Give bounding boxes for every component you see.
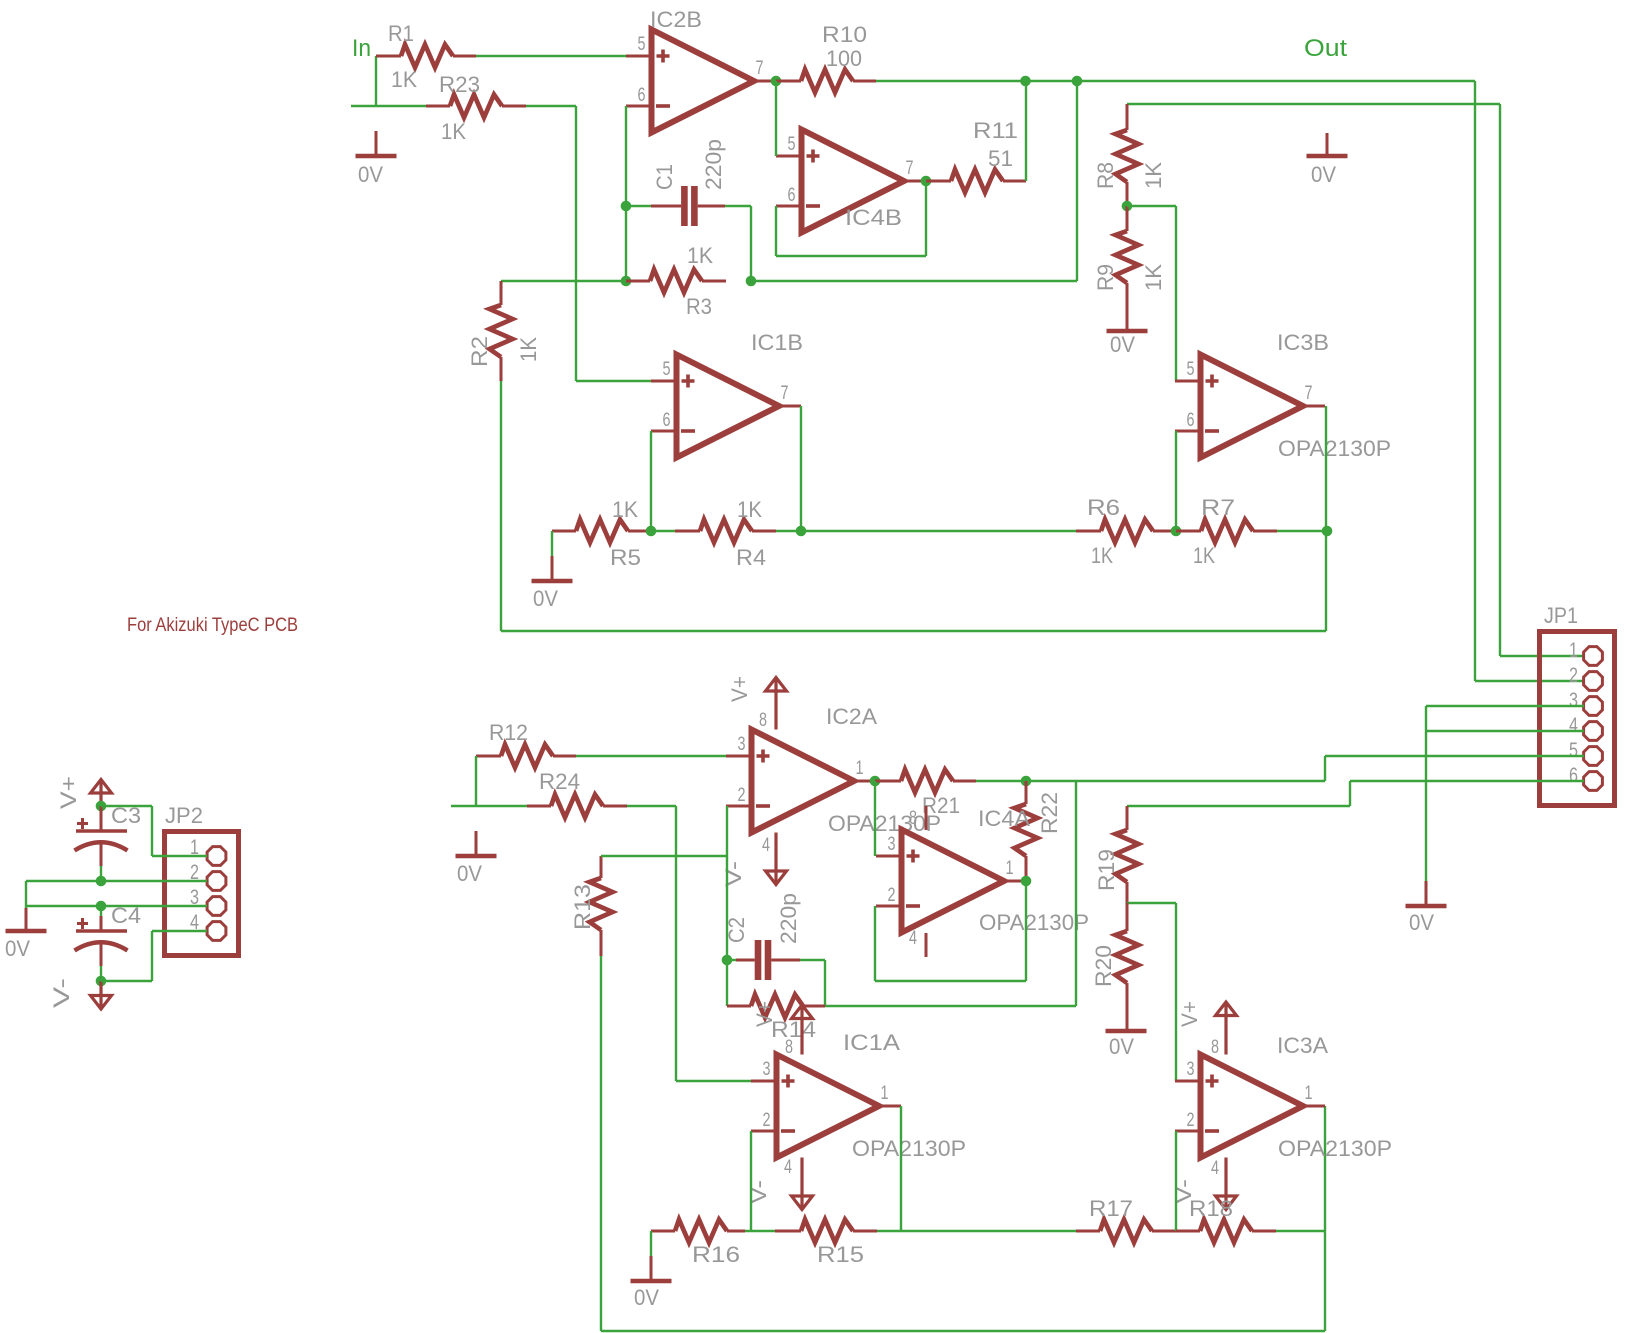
svg-text:4: 4 xyxy=(909,928,917,949)
connector JP2 pins xyxy=(190,836,226,940)
svg-text:3: 3 xyxy=(738,734,746,755)
svg-text:0V: 0V xyxy=(5,936,30,961)
connector JP1 box xyxy=(1540,603,1615,806)
svg-text:IC1A: IC1A xyxy=(843,1030,900,1055)
wire JP1 pin1 horizontal xyxy=(1500,655,1584,657)
wire JP1 pin4 horizontal xyxy=(1426,730,1584,732)
svg-text:2: 2 xyxy=(738,785,746,806)
wire C3 bottom xyxy=(100,866,102,881)
svg-text:8: 8 xyxy=(909,808,917,829)
wire JP2 pin1 c xyxy=(152,855,207,857)
svg-text:R14: R14 xyxy=(771,1017,816,1042)
wire R24 right xyxy=(627,805,676,807)
wire R13 top row xyxy=(601,855,727,857)
wire bottom rail xyxy=(601,1330,1325,1332)
svg-text:3: 3 xyxy=(1569,689,1578,712)
ground 0V below Out xyxy=(1307,133,1348,187)
node Out label xyxy=(1304,35,1347,62)
op-amp IC3A xyxy=(1175,1033,1392,1179)
ground 0V below R5 xyxy=(532,531,573,611)
svg-text:1K: 1K xyxy=(391,67,417,92)
wire R8 top row xyxy=(1127,103,1500,105)
svg-text:6: 6 xyxy=(663,410,671,431)
wire C2 right down xyxy=(824,960,826,1006)
wire JP1 pin3 vertical to 0V xyxy=(1425,706,1427,881)
op-amp IC1A xyxy=(751,1030,966,1178)
capacitor C4 xyxy=(75,903,142,966)
svg-text:1K: 1K xyxy=(687,243,713,268)
svg-text:3: 3 xyxy=(1187,1059,1195,1080)
wire R23 row left xyxy=(351,105,426,107)
wire IC3A out down xyxy=(1324,1106,1326,1331)
power V+ above IC2A xyxy=(727,676,787,730)
power V+ above IC1A xyxy=(752,1001,813,1055)
svg-text:8: 8 xyxy=(785,1037,793,1058)
power V- below IC2A xyxy=(721,833,787,888)
resistor R21 xyxy=(875,770,976,819)
wire R3 row up to Out xyxy=(1076,81,1078,281)
svg-text:OPA2130P: OPA2130P xyxy=(979,910,1089,935)
wire Out row xyxy=(876,80,1475,82)
wire R19 R20 junction right xyxy=(1127,902,1176,904)
svg-text:0V: 0V xyxy=(358,162,383,187)
resistor R7 xyxy=(1176,495,1277,568)
wire R24 down to IC1A xyxy=(675,806,677,1081)
wire IC4B pin5 vertical xyxy=(775,81,777,156)
ground 0V below JP1 xyxy=(1406,881,1447,935)
svg-text:0V: 0V xyxy=(533,586,558,611)
wire IC3A pin2 down xyxy=(1175,1131,1177,1231)
svg-text:1K: 1K xyxy=(1141,162,1166,189)
wire top loop right up xyxy=(1325,531,1327,631)
node dot IC4B out xyxy=(921,176,932,187)
svg-text:V+: V+ xyxy=(56,776,81,809)
svg-text:R18: R18 xyxy=(1189,1196,1233,1221)
wire top loop bottom xyxy=(501,630,1326,632)
node dot Out loop xyxy=(1072,76,1083,87)
svg-text:4: 4 xyxy=(762,835,770,856)
svg-text:IC4A: IC4A xyxy=(978,806,1030,831)
svg-text:R16: R16 xyxy=(692,1242,740,1267)
svg-text:Out: Out xyxy=(1304,35,1347,62)
svg-text:JP2: JP2 xyxy=(165,803,203,828)
resistor R9 xyxy=(1093,206,1166,331)
ground 0V near R24 xyxy=(456,831,497,886)
wire IC4A feedback bottom xyxy=(875,980,1026,982)
svg-text:5: 5 xyxy=(1569,739,1578,762)
node dot R3 right xyxy=(746,276,757,287)
capacitor C3 xyxy=(75,803,142,866)
wire R11 up to Out xyxy=(1025,81,1027,181)
wire R3 left to R2 xyxy=(501,280,626,282)
svg-text:100: 100 xyxy=(826,46,862,71)
svg-text:V-: V- xyxy=(721,861,746,887)
resistor R19 xyxy=(1094,806,1139,903)
svg-text:V-: V- xyxy=(746,1180,771,1204)
wire IC4A feedback down xyxy=(874,906,876,981)
pin 4 stub IC4A xyxy=(925,933,928,957)
svg-text:1K: 1K xyxy=(441,119,466,144)
resistor R20 xyxy=(1091,903,1139,1031)
connector JP2 box xyxy=(165,803,239,956)
svg-text:0V: 0V xyxy=(1311,162,1336,187)
svg-text:5: 5 xyxy=(788,134,796,155)
svg-text:R8: R8 xyxy=(1093,162,1118,189)
resistor R2 xyxy=(467,281,541,381)
node dot R21 R22 xyxy=(1021,776,1032,787)
resistor R6 xyxy=(1076,495,1176,568)
svg-text:2: 2 xyxy=(763,1110,771,1131)
svg-text:7: 7 xyxy=(781,383,789,404)
svg-text:R6: R6 xyxy=(1087,495,1120,520)
connector JP1 pins xyxy=(1569,639,1602,790)
wire R13 down xyxy=(600,956,602,1331)
svg-text:1: 1 xyxy=(856,758,864,779)
ground 0V near In xyxy=(356,131,397,187)
wire IC1A out down xyxy=(900,1106,902,1231)
svg-text:2: 2 xyxy=(888,885,896,906)
wire R12 vertical xyxy=(475,756,477,806)
node dot C2 left xyxy=(722,955,733,966)
wire R21 to JP1 row xyxy=(976,780,1325,782)
svg-text:C1: C1 xyxy=(652,164,677,190)
resistor R23 xyxy=(426,72,526,144)
node dot V+ C3 xyxy=(96,801,107,812)
svg-text:7: 7 xyxy=(756,58,764,79)
node dot C3 bottom xyxy=(96,876,107,887)
wire C1 left xyxy=(626,205,651,207)
wire JP1 pin6 to R19 xyxy=(1127,805,1350,807)
svg-text:4: 4 xyxy=(1211,1158,1219,1179)
svg-text:R2: R2 xyxy=(467,336,492,367)
svg-text:1: 1 xyxy=(1006,858,1014,879)
wire C2 right xyxy=(800,959,825,961)
resistor R10 xyxy=(776,22,876,93)
wire JP2 pin4 c xyxy=(101,980,152,982)
resistor R3 xyxy=(626,243,726,319)
resistor R11 xyxy=(926,118,1026,193)
wire R1 to IC2B pin5 xyxy=(476,55,626,57)
svg-text:4: 4 xyxy=(1569,714,1578,737)
resistor R15 xyxy=(775,1220,877,1268)
svg-text:3: 3 xyxy=(888,834,896,855)
wire IC2A pin2 vertical xyxy=(726,806,728,1006)
wire R2 down xyxy=(500,381,502,631)
svg-text:R13: R13 xyxy=(570,884,595,930)
wire IC4B feedback down xyxy=(925,181,927,256)
wire feedback up to R21 row xyxy=(1075,781,1077,1006)
node dot R8 R9 xyxy=(1122,201,1133,212)
resistor R18 xyxy=(1176,1196,1276,1243)
wire IC4B feedback bottom xyxy=(776,255,926,257)
wire JP1 pin6 horizontal xyxy=(1350,780,1584,782)
wire JP1 pin5 vertical xyxy=(1324,756,1326,781)
svg-text:R11: R11 xyxy=(973,118,1018,143)
svg-text:6: 6 xyxy=(1187,410,1195,431)
node In label xyxy=(352,35,371,62)
wire R4 to R6 xyxy=(776,530,1076,532)
wire to IC3A pin3 xyxy=(1175,903,1177,1081)
svg-text:2: 2 xyxy=(1187,1110,1195,1131)
resistor R13 xyxy=(570,856,613,956)
wire JP2 pin3 row xyxy=(26,905,207,907)
wire C4 bottom xyxy=(100,966,102,981)
svg-text:C2: C2 xyxy=(724,917,749,943)
svg-text:1K: 1K xyxy=(516,337,541,362)
resistor R5 xyxy=(552,497,651,570)
wire C1 right xyxy=(725,205,751,207)
svg-text:6: 6 xyxy=(1569,764,1578,787)
wire JP1 pin3 horizontal xyxy=(1426,705,1584,707)
svg-text:1K: 1K xyxy=(1091,543,1113,568)
ground 0V below R9 xyxy=(1107,331,1148,357)
op-amp IC4A xyxy=(876,806,1089,949)
node dot C4 bottom xyxy=(96,976,107,987)
capacitor C1 xyxy=(651,139,726,226)
node dot R5 R4 xyxy=(646,526,657,537)
svg-text:7: 7 xyxy=(906,158,914,179)
svg-text:R7: R7 xyxy=(1201,495,1235,520)
svg-text:OPA2130P: OPA2130P xyxy=(1278,436,1391,461)
svg-text:0V: 0V xyxy=(1110,332,1135,357)
svg-text:1: 1 xyxy=(1305,1083,1313,1104)
wire R23 right xyxy=(526,105,576,107)
svg-text:8: 8 xyxy=(1211,1037,1219,1058)
svg-text:IC4B: IC4B xyxy=(845,205,902,230)
wire R12 to IC2A pin3 xyxy=(576,755,726,757)
wire JP1 pin1 vertical xyxy=(1499,104,1501,656)
svg-text:5: 5 xyxy=(663,359,671,380)
resistor R16 xyxy=(651,1220,745,1268)
op-amp IC1B xyxy=(651,330,803,458)
svg-text:R24: R24 xyxy=(539,769,580,794)
svg-text:1K: 1K xyxy=(1141,264,1166,291)
svg-text:5: 5 xyxy=(1187,359,1195,380)
power V- below IC1A xyxy=(746,1158,813,1210)
svg-text:R1: R1 xyxy=(388,21,414,46)
wire JP2 pin2 row xyxy=(26,880,207,882)
svg-text:2: 2 xyxy=(1569,664,1578,687)
wire Out down to JP1 pin2 xyxy=(1474,81,1476,681)
svg-text:6: 6 xyxy=(638,85,646,106)
op-amp IC3B xyxy=(1175,330,1391,461)
wire JP2 pin1 b xyxy=(151,806,153,856)
svg-text:4: 4 xyxy=(784,1157,792,1178)
svg-text:IC1B: IC1B xyxy=(751,330,803,355)
wire R16 R15 gap xyxy=(745,1230,775,1232)
op-amp IC4B xyxy=(776,130,926,233)
wire R8R9 junction right xyxy=(1127,205,1176,207)
wire IC3B pin6 down xyxy=(1175,431,1177,531)
wire R24 row left xyxy=(451,805,527,807)
resistor R14 xyxy=(727,995,825,1043)
ground 0V left of JP2 xyxy=(5,908,47,961)
resistor R17 xyxy=(1076,1196,1176,1243)
svg-text:R10: R10 xyxy=(822,22,867,47)
svg-text:R20: R20 xyxy=(1091,945,1116,987)
wire C1 right vertical xyxy=(750,206,752,281)
svg-text:8: 8 xyxy=(759,710,767,731)
power V+ above C3 xyxy=(56,776,112,809)
svg-text:IC3B: IC3B xyxy=(1277,330,1329,355)
svg-text:1: 1 xyxy=(881,1083,889,1104)
resistor R12 xyxy=(476,720,576,768)
svg-text:6: 6 xyxy=(788,185,796,206)
svg-text:0V: 0V xyxy=(457,861,482,886)
svg-text:R22: R22 xyxy=(1037,792,1062,834)
wire R15 right xyxy=(877,1230,1076,1232)
svg-text:OPA2130P: OPA2130P xyxy=(1278,1136,1392,1161)
wire JP2 pin4 b xyxy=(151,931,153,981)
svg-text:R21: R21 xyxy=(922,793,960,818)
wire JP1 pin6 vertical xyxy=(1349,781,1351,806)
wire to IC3B pin5 xyxy=(1175,206,1177,381)
resistor R8 xyxy=(1093,104,1166,206)
wire to IC1B pin5 xyxy=(576,380,651,382)
svg-text:1K: 1K xyxy=(612,497,638,522)
node dot R4 right xyxy=(796,526,807,537)
op-amp IC2B xyxy=(626,7,776,133)
ground 0V below R16 xyxy=(631,1231,672,1310)
svg-text:V+: V+ xyxy=(727,676,752,702)
wire to IC1A pin3 xyxy=(676,1080,751,1082)
power V- below IC3A xyxy=(1171,1158,1237,1210)
resistor R22 xyxy=(1015,781,1063,881)
wire JP1 pin5 horizontal xyxy=(1325,755,1584,757)
node dot IC4A out xyxy=(1021,876,1032,887)
ground 0V below R20 xyxy=(1106,1031,1147,1059)
svg-text:R9: R9 xyxy=(1093,264,1118,291)
pin 8 stub IC4A xyxy=(925,806,928,830)
svg-text:In: In xyxy=(352,35,371,62)
svg-text:R15: R15 xyxy=(817,1242,864,1267)
wire JP1 pin2 horizontal xyxy=(1475,680,1584,682)
wire IC4B feedback up xyxy=(775,206,777,256)
text For Akizuki TypeC PCB xyxy=(127,615,298,636)
node dot R7 IC3B xyxy=(1322,526,1333,537)
svg-text:220p: 220p xyxy=(701,139,726,190)
node dot R3 left xyxy=(621,276,632,287)
svg-text:1: 1 xyxy=(1569,639,1578,662)
wire R7 right xyxy=(1277,530,1327,532)
wire IC3B out down xyxy=(1325,406,1327,531)
wire R18 right xyxy=(1276,1230,1325,1232)
node dot C1 left xyxy=(621,201,632,212)
svg-text:For Akizuki TypeC PCB: For Akizuki TypeC PCB xyxy=(127,615,298,636)
svg-text:V+: V+ xyxy=(1177,1001,1202,1027)
svg-text:IC2A: IC2A xyxy=(826,704,877,729)
svg-text:R4: R4 xyxy=(736,545,766,570)
power V+ above IC3A xyxy=(1177,1001,1237,1055)
svg-text:V-: V- xyxy=(49,978,74,1008)
svg-text:OPA2130P: OPA2130P xyxy=(852,1136,966,1161)
svg-text:R19: R19 xyxy=(1094,849,1119,891)
svg-text:0V: 0V xyxy=(1109,1034,1134,1059)
node dot IC2A out xyxy=(870,776,881,787)
node dot C4 top xyxy=(96,901,107,912)
power V- below C4 xyxy=(49,978,112,1009)
resistor R24 xyxy=(527,769,627,818)
wire JP2 pin4 a xyxy=(152,930,207,932)
wire IC2A pin2 to R15 R16 xyxy=(750,1131,752,1231)
capacitor C2 xyxy=(724,893,801,980)
wire IC4A feedback up xyxy=(1025,881,1027,981)
wire IC2B pin6 vertical xyxy=(625,106,627,281)
svg-text:1K: 1K xyxy=(1193,543,1215,568)
wire R14 right xyxy=(825,1005,1076,1007)
svg-text:R23: R23 xyxy=(439,72,480,97)
svg-text:0V: 0V xyxy=(634,1285,659,1310)
svg-text:IC3A: IC3A xyxy=(1277,1033,1328,1058)
op-amp IC2A xyxy=(726,704,941,856)
svg-text:0V: 0V xyxy=(1409,910,1434,935)
wire R23 vertical to IC1B xyxy=(575,106,577,381)
svg-text:R17: R17 xyxy=(1089,1196,1133,1221)
wire JP2 ground vertical xyxy=(25,881,27,908)
node dot IC2B out xyxy=(771,76,782,87)
svg-text:R12: R12 xyxy=(489,720,528,745)
svg-text:IC2B: IC2B xyxy=(650,7,702,32)
wire IC4A pin3 vertical xyxy=(874,781,876,856)
wire R3 right long xyxy=(751,280,1077,282)
svg-text:7: 7 xyxy=(1305,383,1313,404)
resistor R1 xyxy=(376,21,476,92)
svg-text:JP1: JP1 xyxy=(1544,603,1578,628)
node dot R6 R7 xyxy=(1171,526,1182,537)
svg-text:R3: R3 xyxy=(686,294,712,319)
node dot R11 top xyxy=(1020,76,1031,87)
svg-text:220p: 220p xyxy=(776,893,801,944)
svg-text:3: 3 xyxy=(763,1059,771,1080)
svg-text:51: 51 xyxy=(988,146,1013,171)
svg-text:V+: V+ xyxy=(752,1001,777,1027)
svg-text:1K: 1K xyxy=(737,497,762,522)
wire In vertical xyxy=(375,56,377,106)
wire IC1B out down xyxy=(800,406,802,531)
svg-text:R5: R5 xyxy=(610,545,641,570)
resistor R4 xyxy=(651,497,776,570)
wire IC1B pin6 down xyxy=(650,431,652,531)
wire JP2 pin1 a xyxy=(101,805,152,807)
svg-text:5: 5 xyxy=(638,34,646,55)
